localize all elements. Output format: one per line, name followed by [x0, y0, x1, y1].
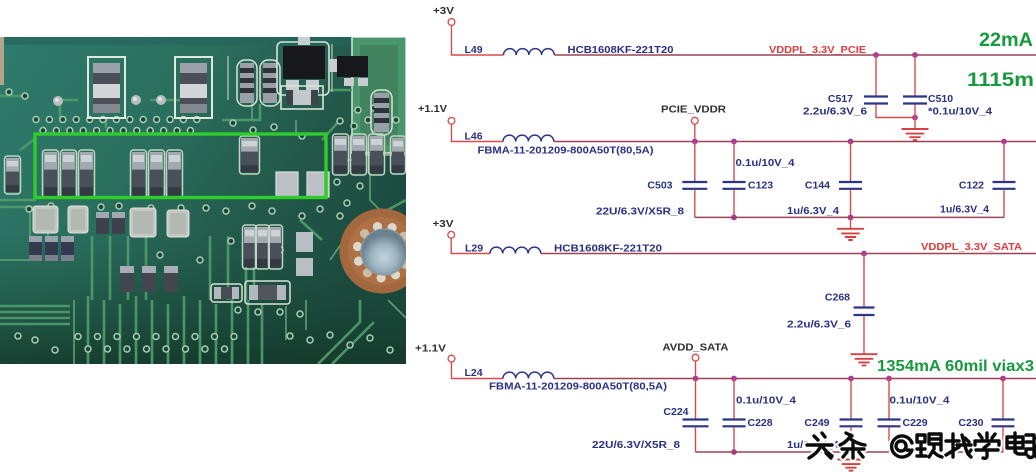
- net name PCIE_VDDR: [661, 104, 726, 116]
- designator C229: [903, 417, 928, 429]
- inductor label L24: [465, 367, 483, 379]
- junction node C510 top: [912, 52, 918, 58]
- power label +3V (row 1): [433, 6, 454, 17]
- wire row 4 ground rail: [696, 451, 1004, 453]
- wire C503 upper: [694, 142, 696, 182]
- svg-text:+3V: +3V: [433, 6, 454, 17]
- value 22U/6.3V/X5R_8 (C503): [596, 207, 684, 218]
- svg-text:+1.1V: +1.1V: [415, 344, 446, 355]
- power label +1.1V (row 2): [418, 104, 447, 115]
- value label HCB1608KF-221T20 (L29): [554, 243, 662, 255]
- wire C224 upper: [695, 379, 697, 419]
- power terminal +3V (row 1): [448, 19, 455, 26]
- svg-text:2.2u/6.3V_6: 2.2u/6.3V_6: [787, 320, 852, 331]
- wire C510 upper: [914, 55, 916, 96]
- wire C249 lower: [850, 427, 852, 452]
- PCB photo: motherboard region with highlighted capacitors: [0, 36, 425, 364]
- junction node C229 top: [886, 376, 892, 382]
- wire C230 lower: [1002, 427, 1004, 452]
- inductor L29: [490, 247, 541, 253]
- wire C230 upper: [1002, 379, 1004, 419]
- svg-text:0.1u/10V_4: 0.1u/10V_4: [890, 396, 950, 407]
- wire C268 upper: [863, 254, 865, 307]
- junction node C230 top: [1000, 376, 1006, 382]
- inductor label L29: [465, 243, 483, 255]
- junction node C123 top: [731, 139, 737, 145]
- designator C144: [805, 180, 830, 192]
- svg-text:C517: C517: [828, 93, 853, 105]
- svg-text:L24: L24: [465, 367, 483, 379]
- wire +3V to L49: [452, 25, 504, 55]
- capacitor C249: [840, 420, 863, 427]
- annotation 22mA: [979, 30, 1033, 51]
- wire C249 upper: [850, 379, 852, 419]
- wire +3V to L29: [451, 238, 490, 253]
- wire C122 lower: [1003, 190, 1005, 218]
- terminal PCIE_VDDR: [691, 117, 698, 124]
- svg-text:0.1u/10V_4: 0.1u/10V_4: [736, 396, 796, 407]
- svg-text:VDDPL_3.3V_SATA: VDDPL_3.3V_SATA: [921, 241, 1022, 253]
- svg-text:1u/6.3V_4: 1u/6.3V_4: [787, 206, 839, 217]
- svg-text:C122: C122: [959, 180, 984, 192]
- wire C229 lower: [888, 427, 890, 452]
- annotation 1354mA 60mil viax3: [877, 358, 1034, 375]
- annotation 1115m: [967, 70, 1034, 91]
- capacitor C123: [723, 182, 746, 189]
- svg-text:*0.1u/10V_4: *0.1u/10V_4: [928, 107, 992, 118]
- power terminal +3V (row 3): [448, 231, 455, 238]
- svg-text:1115m: 1115m: [967, 70, 1034, 91]
- capacitor C229: [878, 420, 901, 427]
- inductor label L46: [465, 131, 483, 143]
- svg-text:2.2u/6.3V_6: 2.2u/6.3V_6: [803, 107, 868, 118]
- inductor L49: [503, 49, 554, 55]
- wire C268 to ground: [863, 316, 865, 354]
- ground (row 2): [837, 229, 864, 240]
- wire C122 upper: [1003, 142, 1005, 182]
- wire rail to ground (row 4): [850, 452, 852, 460]
- designator C517: [828, 93, 853, 105]
- junction node C249 bottom: [848, 449, 854, 455]
- wire C123 lower: [733, 190, 735, 218]
- wire rail to ground (row 2): [850, 217, 852, 228]
- wire net VDDPL_3.3V_SATA bus: [541, 253, 1036, 255]
- capacitor C230: [992, 420, 1015, 427]
- ground (row 4): [838, 460, 865, 471]
- svg-text:C510: C510: [928, 93, 953, 105]
- capacitor C517: [864, 97, 888, 104]
- value 22U/6.3V/X5R_8 (C224): [592, 440, 680, 451]
- value 1u/6.3V_4 (C122): [940, 205, 989, 216]
- inductor L46: [503, 135, 554, 141]
- value *0.1u/10V_4 (C510): [928, 107, 992, 118]
- net name AVDD_SATA: [663, 342, 729, 354]
- power label +1.1V (row 4): [415, 344, 446, 355]
- svg-text:VDDPL_3.3V_PCIE: VDDPL_3.3V_PCIE: [769, 44, 866, 56]
- wire C228 upper: [733, 379, 735, 419]
- designator C123: [748, 180, 773, 192]
- wire net PCIE_VDDR bus: [554, 141, 1036, 143]
- inductor L24: [503, 372, 554, 378]
- designator C249: [804, 417, 829, 429]
- svg-text:C503: C503: [647, 180, 672, 192]
- designator C122: [959, 180, 984, 192]
- power terminal +1.1V (row 2): [448, 117, 455, 124]
- junction node C228 bottom: [731, 449, 737, 455]
- ground (row 1): [902, 129, 929, 140]
- svg-text:C268: C268: [825, 292, 850, 304]
- wire C503 lower: [694, 190, 696, 218]
- wire C510 to ground: [914, 105, 916, 130]
- value 0.1u/10V_4 (C123): [736, 158, 795, 169]
- ground (row 3): [851, 354, 878, 365]
- capacitor C510: [903, 97, 927, 104]
- capacitor C144: [839, 182, 862, 189]
- designator C510: [928, 93, 953, 105]
- junction node C510 bottom: [912, 115, 918, 121]
- junction node C144 top: [848, 139, 854, 145]
- value label HCB1608KF-221T20 (L49): [568, 44, 674, 56]
- svg-text:+1.1V: +1.1V: [418, 104, 447, 115]
- svg-text:L29: L29: [465, 243, 483, 255]
- svg-text:C230: C230: [958, 417, 983, 429]
- svg-text:L49: L49: [465, 44, 483, 56]
- svg-text:L46: L46: [465, 131, 483, 143]
- power label +3V (row 3): [433, 219, 454, 230]
- junction node PCIE_VDDR: [692, 139, 698, 145]
- wire C228 lower: [733, 427, 735, 452]
- svg-text:22U/6.3V/X5R_8: 22U/6.3V/X5R_8: [592, 440, 680, 451]
- power terminal +1.1V (row 4): [448, 355, 455, 362]
- svg-text:+3V: +3V: [433, 219, 454, 230]
- inductor label L49: [465, 44, 483, 56]
- wire C144 lower: [850, 190, 852, 218]
- svg-text:22mA: 22mA: [979, 30, 1033, 51]
- wire net AVDD_SATA bus: [554, 378, 1036, 380]
- svg-text:PCIE_VDDR: PCIE_VDDR: [661, 104, 726, 116]
- svg-text:C224: C224: [663, 406, 688, 418]
- value 2.2u/6.3V_6 (C268): [787, 320, 852, 331]
- wire row 2 ground rail: [695, 216, 1004, 218]
- value 0.1u/10V_4 (C228): [736, 396, 796, 407]
- junction node C144 bottom: [848, 215, 854, 221]
- capacitor C228: [723, 420, 746, 427]
- watermark 头条 @跟我学电脑: [807, 433, 1036, 458]
- capacitor C224: [683, 420, 709, 427]
- value label FBMA-11-201209-800A50T(80,5A) (L46): [478, 145, 654, 157]
- svg-text:C229: C229: [903, 417, 928, 429]
- wire +1.1V to L24: [452, 362, 504, 379]
- junction node C517 top: [873, 52, 879, 58]
- designator C228: [748, 417, 773, 429]
- wire C517 bottom to node: [876, 105, 915, 118]
- designator C268: [825, 292, 850, 304]
- wire C144 upper: [850, 142, 852, 182]
- junction node C249 top: [848, 376, 854, 382]
- svg-text:C123: C123: [748, 180, 773, 192]
- value label FBMA-11-201209-800A50T(80,5A) (L24): [489, 381, 667, 393]
- capacitor C268: [854, 308, 875, 316]
- junction node AVDD_SATA: [693, 376, 699, 382]
- net name VDDPL_3.3V_PCIE: [769, 44, 866, 56]
- terminal AVDD_SATA: [692, 354, 699, 361]
- value 0.1u/10V_4 (C229): [890, 396, 950, 407]
- wire net VDDPL_3.3V_PCIE bus: [554, 54, 1036, 56]
- junction node C123 bottom: [731, 215, 737, 221]
- designator C224: [663, 406, 688, 418]
- wire AVDD_SATA terminal down: [695, 361, 697, 379]
- capacitor C122: [993, 182, 1016, 189]
- value 2.2u/6.3V_6 (C517): [803, 107, 868, 118]
- svg-text:1354mA 60mil viax3: 1354mA 60mil viax3: [877, 358, 1034, 375]
- svg-text:FBMA-11-201209-800A50T(80,5A): FBMA-11-201209-800A50T(80,5A): [478, 145, 654, 157]
- svg-text:22U/6.3V/X5R_8: 22U/6.3V/X5R_8: [596, 207, 684, 218]
- svg-text:AVDD_SATA: AVDD_SATA: [663, 342, 729, 354]
- svg-text:C144: C144: [805, 180, 830, 192]
- junction node C122 top: [1001, 139, 1007, 145]
- designator C230: [958, 417, 983, 429]
- svg-text:FBMA-11-201209-800A50T(80,5A): FBMA-11-201209-800A50T(80,5A): [489, 381, 667, 393]
- wire C517 upper: [875, 55, 877, 96]
- wire C229 upper: [888, 379, 890, 419]
- svg-text:1u/6.3V_4: 1u/6.3V_4: [940, 205, 989, 216]
- designator C503: [647, 180, 672, 192]
- value 1u/6.3V_4 (C249): [787, 440, 839, 451]
- capacitor C503: [682, 182, 707, 189]
- svg-text:0.1u/10V_4: 0.1u/10V_4: [736, 158, 795, 169]
- junction node C228 top: [731, 376, 737, 382]
- net name VDDPL_3.3V_SATA: [921, 241, 1022, 253]
- wire C224 lower: [695, 427, 697, 452]
- svg-text:C249: C249: [804, 417, 829, 429]
- svg-text:C228: C228: [748, 417, 773, 429]
- wire +1.1V to L46: [452, 124, 504, 141]
- value 1u/6.3V_4 (C144): [787, 206, 839, 217]
- green highlight rectangle: [35, 134, 326, 198]
- wire C123 upper: [733, 142, 735, 182]
- junction node C268 top: [861, 251, 867, 257]
- wire PCIE_VDDR terminal down: [694, 124, 696, 141]
